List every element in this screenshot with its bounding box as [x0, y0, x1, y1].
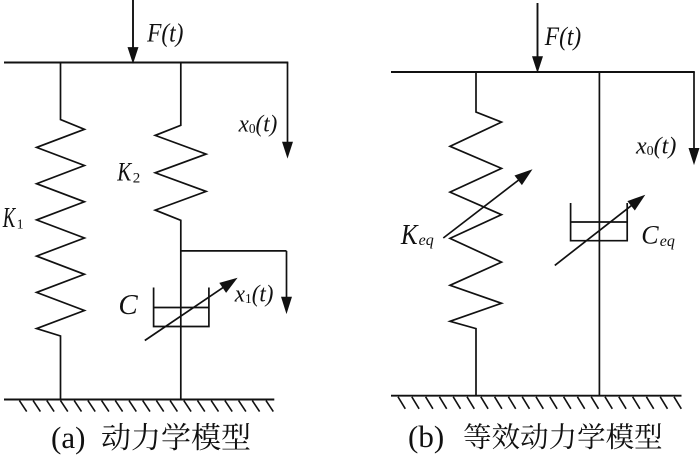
svg-text:x1(t): x1(t) — [234, 281, 274, 308]
displacement arrow x0(t) of model (a) — [287, 63, 289, 144]
svg-text:2: 2 — [133, 171, 141, 187]
spring Keq — [450, 72, 502, 396]
force arrow F(t) of model (b) — [537, 3, 539, 57]
svg-text:(a): (a) — [51, 420, 85, 455]
spring K1 — [37, 63, 85, 400]
svg-text:(b): (b) — [408, 419, 444, 454]
ground of model (b) — [391, 395, 682, 397]
svg-text:F(t): F(t) — [146, 19, 183, 47]
svg-text:C: C — [641, 221, 659, 250]
svg-text:K: K — [116, 158, 132, 187]
variable-damper diagonal arrow (b) — [555, 204, 633, 265]
svg-text:C: C — [118, 289, 138, 321]
wire: top bar of model (a) — [4, 62, 288, 64]
svg-text:F(t): F(t) — [544, 23, 581, 51]
force arrow F(t) of model (a) — [132, 0, 134, 48]
wire: branch to x1 arrow — [181, 250, 287, 252]
damper rod (b) — [598, 72, 600, 396]
damper Ceq (cup and piston) — [571, 203, 628, 241]
svg-text:K: K — [2, 204, 16, 235]
displacement arrow x0(t) of model (b) — [693, 72, 695, 149]
svg-text:K: K — [400, 218, 419, 250]
svg-text:x0(t): x0(t) — [238, 111, 278, 138]
svg-text:eq: eq — [419, 232, 434, 249]
svg-text:x0(t): x0(t) — [635, 134, 676, 160]
svg-text:1: 1 — [17, 217, 24, 232]
displacement arrow x1(t) — [286, 251, 288, 298]
svg-text:eq: eq — [660, 233, 675, 250]
spring K2 — [155, 63, 206, 400]
damper C (cup and piston) — [154, 288, 209, 327]
variable-spring diagonal arrow (b) — [443, 179, 520, 238]
ground of model (a) — [4, 399, 274, 401]
wire: top bar of model (b) — [391, 71, 695, 73]
variable-damper diagonal arrow (a) — [145, 287, 225, 341]
